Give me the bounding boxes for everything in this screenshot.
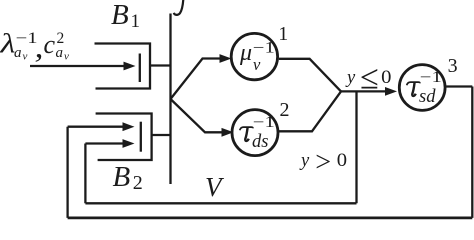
svg-text:a: a [14,45,22,61]
svg-text:v: v [253,55,261,74]
wire tau_sd output to right edge [446,85,472,87]
svg-text:0: 0 [381,68,391,88]
wire outer feedback left vertical [66,127,68,218]
node J line [169,14,171,185]
label J [174,0,184,15]
wire inner feedback bottom V line [85,202,356,204]
svg-text:−1: −1 [253,40,275,57]
svg-text:1: 1 [278,23,288,45]
wire inner feedback left vertical [84,144,86,204]
svg-text:y: y [345,68,356,88]
label B1 [111,0,140,32]
label y > 0 [299,147,347,178]
svg-text:v: v [64,51,69,63]
svg-text:sd: sd [419,87,436,107]
svg-text:μ: μ [239,40,252,66]
wire junction to mu circle [171,59,222,100]
svg-text:3: 3 [448,55,458,77]
label y <= 0 [345,60,392,97]
wire outer feedback right vertical [471,87,473,218]
svg-text:B: B [111,0,129,31]
input label lambda_av^-1, c_av^2 [0,29,69,65]
op block tau_ds^-1 circle U2 [232,110,278,156]
wire merge to tau_sd [341,90,386,92]
wire outer feedback bottom [68,217,473,220]
svg-text:a: a [56,45,64,61]
wire inner feedback arrow into B2 lower input [85,142,123,144]
wire mu to merge point [279,59,341,92]
svg-text:ds: ds [252,132,268,152]
svg-text:0: 0 [337,151,347,171]
svg-text:,: , [35,29,44,64]
op block tau_sd^-1 circle U3 [399,65,445,111]
wire junction to tau_ds circle [171,99,224,132]
wire tau_ds to merge point [279,91,341,131]
op block mu_v^-1 circle U1 [231,33,277,79]
label B2 [113,161,143,194]
wire B1 output [150,64,171,66]
svg-text:v: v [23,51,28,63]
svg-text:B: B [113,161,131,193]
block B2 gate bar [140,122,142,152]
svg-text:2: 2 [133,172,143,194]
svg-text:2: 2 [280,99,290,121]
wire outer feedback arrow into B2 upper input [68,126,123,128]
block B1 gate bar [139,54,141,83]
svg-text:>: > [315,147,331,178]
wire y>0 drop line [355,91,357,203]
svg-text:c: c [44,30,56,59]
wire B2 output [152,134,171,136]
svg-text:y: y [299,151,310,171]
svg-text:1: 1 [131,11,141,32]
svg-text:−1: −1 [253,114,275,131]
wire input arrow into B1 [30,65,124,67]
block B2 bracket [96,114,152,161]
svg-text:−1: −1 [420,69,442,86]
svg-text:V: V [205,172,225,202]
block B1 bracket [95,44,151,89]
